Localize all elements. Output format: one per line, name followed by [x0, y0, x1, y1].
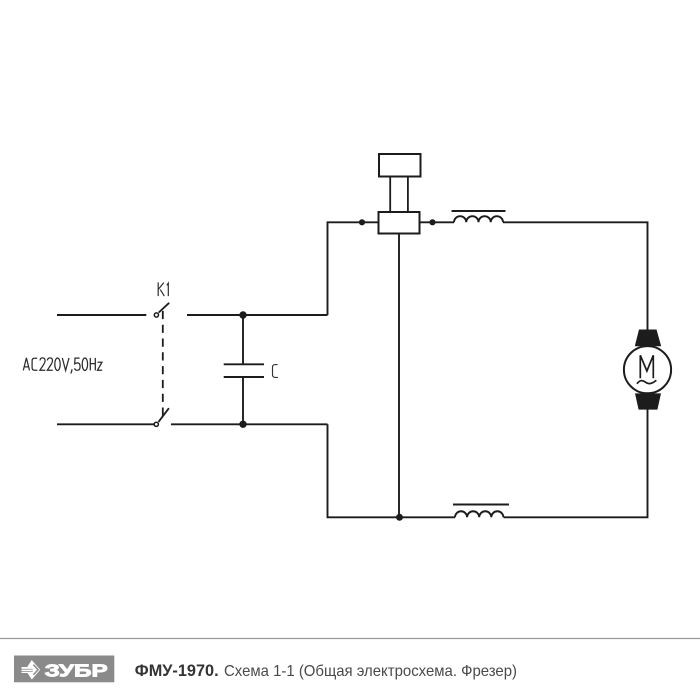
capacitor C top lead — [242, 315, 244, 364]
svg-text:Схема 1-1 (Общая электросхема.: Схема 1-1 (Общая электросхема. Фрезер) — [224, 663, 517, 680]
wire riser to brush node — [328, 222, 379, 315]
terminal dot right of brush box — [429, 219, 435, 225]
motor M tilde — [637, 380, 656, 384]
svg-text:ФМУ-1970.: ФМУ-1970. — [135, 661, 219, 680]
motor M letter — [640, 355, 653, 378]
label C — [273, 365, 278, 378]
inductor L2 winding — [455, 511, 503, 517]
footer separator — [0, 638, 700, 640]
switch K1 bottom pole blade — [159, 408, 169, 422]
wire drop to bottom run — [328, 424, 456, 517]
label K1 — [158, 282, 168, 296]
terminal dot left of brush box — [359, 219, 365, 225]
inductor L1 winding — [454, 216, 503, 222]
brush assembly cap — [379, 154, 421, 177]
wire top AC left segment — [57, 314, 146, 316]
switch K1 bottom pole contact — [154, 422, 158, 426]
switch K1 top pole blade — [159, 303, 170, 313]
wire choke L1 to motor — [503, 222, 648, 331]
junction dot bottom run — [396, 514, 403, 521]
wire motor to choke L2 — [504, 409, 648, 517]
svg-text:ЗУБР: ЗУБР — [45, 660, 108, 680]
switch K1 linkage (dashed) — [162, 311, 164, 416]
motor M frame — [624, 346, 671, 393]
wire top AC right of switch — [187, 314, 328, 316]
capacitor C bottom lead — [242, 377, 244, 424]
inductor L2 core — [453, 504, 509, 506]
label AC220V,50Hz — [23, 358, 102, 374]
wire bottom AC right of switch — [171, 423, 328, 425]
ZUBR logo plate — [14, 656, 114, 683]
motor M brush bottom — [635, 393, 661, 409]
inductor L1 core — [452, 210, 506, 212]
wire brush body to bottom run — [398, 234, 400, 518]
capacitor C plates — [224, 363, 264, 365]
junction dot capacitor bottom — [239, 421, 246, 428]
ZUBR logo diamond icon — [22, 660, 41, 680]
switch K1 top pole contact — [154, 313, 158, 317]
wire bottom AC left segment — [57, 423, 154, 425]
brush assembly body — [379, 212, 420, 234]
junction dot capacitor top — [239, 311, 246, 318]
brush assembly stem — [390, 177, 408, 213]
motor M brush top — [635, 330, 661, 347]
wire brush body to choke L1 — [420, 221, 455, 223]
